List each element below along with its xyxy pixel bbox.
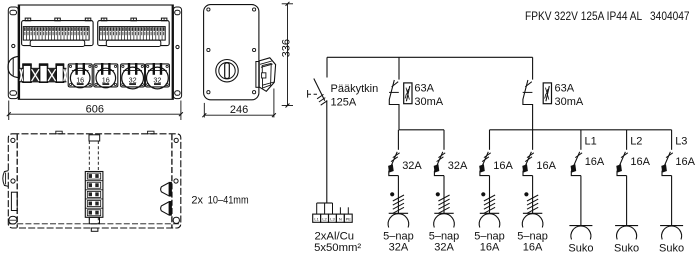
svg-text:16A: 16A: [536, 160, 556, 172]
svg-text:2xAl/Cu: 2xAl/Cu: [315, 231, 355, 243]
wire: sub-bus group 2: [490, 129, 672, 131]
svg-text:32A: 32A: [434, 242, 454, 254]
wire: sub-bus group 1: [399, 129, 444, 131]
MCB 16A Suko #3: [661, 130, 673, 226]
Suko outlet #1: [569, 226, 592, 240]
svg-text:16A: 16A: [523, 242, 543, 254]
svg-text:10–41mm: 10–41mm: [208, 195, 249, 207]
label Suko #1: [568, 243, 593, 255]
label 5-nap 32A #1: [383, 231, 414, 254]
wire: main switch feed: [326, 57, 328, 77]
RCD F1 63A/30mA: [389, 57, 399, 130]
CEE outlet 5-nap 32A #1: [388, 213, 409, 227]
side view: main switch knob: [216, 59, 238, 81]
bottom view: cable gland 2: [161, 201, 172, 216]
bottom view: left bracket: [11, 192, 17, 210]
wire: top bus: [327, 56, 533, 58]
dimension 246: [202, 89, 276, 118]
front view: right mounting flange: [173, 7, 181, 99]
svg-text:32A: 32A: [389, 242, 409, 254]
svg-text:16: 16: [102, 75, 110, 84]
Suko outlet #3: [660, 226, 683, 240]
MCB 16A Suko #1: [571, 130, 583, 226]
MCB 32A #2: [434, 130, 450, 214]
svg-text:Pääkytkin: Pääkytkin: [331, 83, 379, 95]
CEE outlet 5-nap 16A #1: [479, 213, 500, 227]
node feed split L1-L3: [317, 203, 349, 214]
RCD F2 test box: [543, 83, 551, 104]
front view: CEE socket 32A #1: [121, 63, 145, 89]
svg-text:32A: 32A: [402, 160, 422, 172]
dimension 606: [7, 101, 183, 121]
label Suko #3: [659, 243, 684, 255]
Suko outlet #2: [615, 226, 638, 240]
bottom view: cable gland 1: [161, 182, 172, 197]
bottom view: side inlet bump (left edge): [3, 171, 9, 187]
label 5-nap 16A #2: [517, 231, 548, 254]
RCD F1 test box: [404, 83, 412, 104]
label F2 63A 30mA: [555, 82, 584, 108]
bottom view: mounting screws: [11, 138, 178, 183]
CEE outlet 5-nap 32A #2: [434, 213, 455, 227]
svg-text:16A: 16A: [630, 156, 650, 168]
svg-text:336: 336: [281, 39, 293, 57]
svg-text:Suko: Suko: [614, 243, 639, 255]
label 5-nap 32A #2: [429, 231, 460, 254]
label 16A Suko #2: [630, 156, 650, 168]
svg-text:16A: 16A: [675, 156, 695, 168]
label 16A CEE #1: [493, 160, 513, 172]
svg-text:32A: 32A: [448, 160, 468, 172]
title text: [525, 11, 690, 23]
front view: DIN device row: [20, 63, 66, 82]
front view: CEE socket 32A #2: [145, 63, 169, 89]
label F1 63A 30mA: [414, 82, 443, 108]
front view: CEE socket 16A #1: [68, 63, 92, 88]
front view: terminal block row 2: [98, 18, 170, 46]
main switch Q1 (Paakytkin 125A): [308, 79, 328, 106]
MCB 16A CEE #2: [522, 130, 538, 214]
svg-text:32: 32: [153, 75, 161, 84]
svg-text:L1: L1: [585, 136, 597, 148]
side view: angled CEE inlet: [256, 58, 276, 92]
svg-text:5x50mm²: 5x50mm²: [314, 242, 361, 254]
label 5-nap 16A #1: [474, 231, 505, 254]
RCD F2 63A/30mA: [523, 57, 533, 130]
MCB 16A CEE #1: [479, 130, 495, 214]
front view: terminal block row 1: [22, 18, 94, 46]
node L2: [630, 136, 642, 148]
dimension 336: [281, 2, 293, 108]
svg-text:2x: 2x: [191, 195, 203, 207]
svg-text:30mA: 30mA: [555, 96, 584, 108]
svg-text:16: 16: [76, 75, 84, 84]
label gland size: [191, 195, 248, 207]
svg-text:606: 606: [86, 103, 104, 115]
MCB 32A #1: [388, 130, 404, 214]
feed terminal block L1 L2 L3 N PE: [313, 214, 352, 222]
bottom view: enclosure outline: [8, 131, 181, 228]
svg-text:L1: L1: [314, 216, 319, 221]
bottom view: DIN rail (hidden): [89, 135, 100, 232]
node L3: [675, 136, 687, 148]
label 16A Suko #1: [585, 156, 605, 168]
svg-text:63A: 63A: [555, 82, 575, 94]
label supply cable: [314, 231, 361, 255]
svg-text:L2: L2: [630, 136, 642, 148]
svg-text:246: 246: [230, 104, 248, 116]
svg-text:16A: 16A: [480, 242, 500, 254]
label 16A Suko #3: [675, 156, 695, 168]
svg-text:L2: L2: [322, 216, 327, 221]
svg-text:16A: 16A: [585, 156, 605, 168]
svg-text:125A: 125A: [331, 96, 357, 108]
label 32A #2: [448, 160, 468, 172]
svg-text:FPKV 322V 125A IP44 AL 340404: FPKV 322V 125A IP44 AL 3404047: [525, 11, 690, 23]
label Paakytkin 125A: [331, 83, 379, 109]
svg-text:Suko: Suko: [659, 243, 684, 255]
svg-text:63A: 63A: [414, 82, 434, 94]
MCB 16A Suko #2: [616, 130, 628, 226]
front view: enclosure face: [18, 5, 173, 99]
front view: left side inlet (edge-on): [8, 56, 19, 77]
svg-text:30mA: 30mA: [414, 96, 443, 108]
wire: main switch to feed terminals: [326, 100, 328, 203]
front view: CEE socket 16A #2: [94, 63, 118, 88]
svg-text:Suko: Suko: [568, 243, 593, 255]
label 16A CEE #2: [536, 160, 556, 172]
bottom view: flange slots (hidden): [9, 216, 180, 224]
svg-text:L3: L3: [675, 136, 687, 148]
side view: enclosure body: [204, 5, 259, 100]
svg-text:N: N: [339, 216, 342, 221]
front view: left mounting flange: [8, 7, 18, 99]
svg-text:32: 32: [129, 75, 137, 84]
svg-text:L3: L3: [330, 216, 335, 221]
svg-text:16A: 16A: [493, 160, 513, 172]
svg-text:PE: PE: [346, 216, 352, 221]
CEE outlet 5-nap 16A #2: [522, 213, 543, 227]
bottom view: terminal block column: [85, 172, 103, 218]
node L1: [585, 136, 597, 148]
label Suko #2: [614, 243, 639, 255]
label 32A #1: [402, 160, 422, 172]
